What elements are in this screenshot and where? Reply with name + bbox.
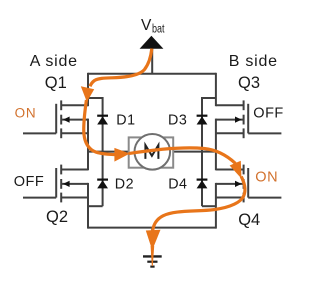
- svg-text:D4: D4: [168, 177, 187, 193]
- svg-text:D1: D1: [116, 112, 135, 128]
- svg-text:Q2: Q2: [46, 208, 68, 226]
- svg-text:D2: D2: [115, 177, 134, 193]
- svg-text:ON: ON: [15, 106, 37, 121]
- svg-text:Q4: Q4: [238, 211, 260, 229]
- svg-text:B side: B side: [229, 53, 278, 70]
- svg-text:bat: bat: [152, 23, 165, 35]
- svg-text:A side: A side: [30, 53, 78, 70]
- svg-text:OFF: OFF: [14, 174, 45, 190]
- svg-text:OFF: OFF: [253, 106, 283, 122]
- svg-text:Q3: Q3: [238, 74, 260, 92]
- svg-text:V: V: [141, 17, 152, 34]
- svg-text:Q1: Q1: [45, 74, 67, 92]
- svg-text:ON: ON: [255, 170, 278, 186]
- svg-text:D3: D3: [168, 113, 187, 129]
